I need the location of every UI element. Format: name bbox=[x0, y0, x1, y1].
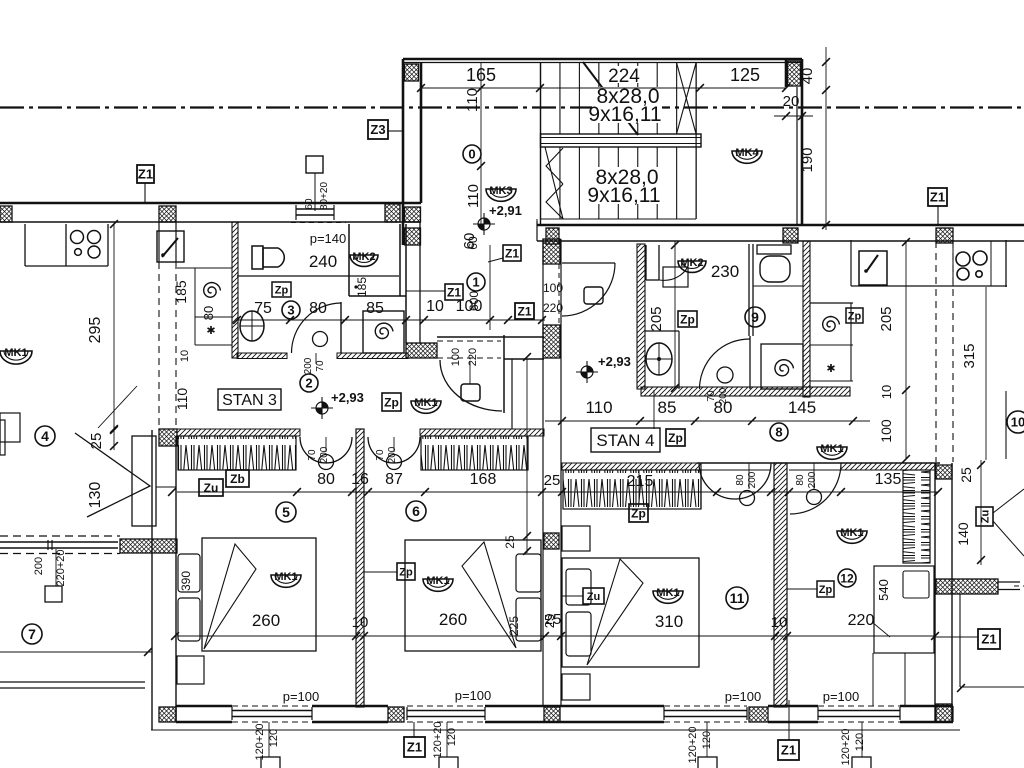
svg-text:Zu: Zu bbox=[587, 591, 600, 603]
svg-text:315: 315 bbox=[961, 343, 978, 368]
svg-text:Zb: Zb bbox=[230, 472, 245, 486]
svg-text:85: 85 bbox=[366, 300, 384, 317]
svg-text:p=100: p=100 bbox=[823, 689, 860, 704]
svg-text:220: 220 bbox=[543, 301, 563, 315]
svg-text:Zp: Zp bbox=[680, 312, 695, 326]
svg-text:Z1: Z1 bbox=[981, 632, 996, 647]
svg-text:Z1: Z1 bbox=[930, 190, 945, 205]
svg-text:MK1: MK1 bbox=[656, 587, 679, 599]
svg-text:0: 0 bbox=[468, 147, 475, 162]
svg-text:Zu: Zu bbox=[204, 481, 219, 495]
svg-text:85: 85 bbox=[658, 398, 677, 417]
svg-text:8: 8 bbox=[775, 425, 782, 440]
svg-text:145: 145 bbox=[788, 398, 816, 417]
svg-text:80: 80 bbox=[795, 474, 806, 486]
svg-text:125: 125 bbox=[730, 65, 760, 85]
svg-text:10: 10 bbox=[879, 385, 894, 399]
svg-text:390: 390 bbox=[179, 571, 193, 591]
svg-text:12: 12 bbox=[840, 571, 854, 585]
svg-text:MK1: MK1 bbox=[820, 443, 843, 455]
svg-text:110: 110 bbox=[464, 88, 481, 112]
svg-text:200: 200 bbox=[33, 557, 45, 575]
svg-text:120: 120 bbox=[854, 733, 866, 751]
svg-text:220: 220 bbox=[467, 348, 479, 366]
svg-text:60: 60 bbox=[304, 198, 315, 210]
svg-text:220: 220 bbox=[848, 612, 875, 629]
svg-text:Z1: Z1 bbox=[781, 743, 796, 758]
svg-text:9: 9 bbox=[751, 309, 759, 325]
svg-text:Z1: Z1 bbox=[447, 285, 461, 299]
svg-text:10: 10 bbox=[1011, 415, 1024, 430]
svg-text:100: 100 bbox=[450, 348, 462, 366]
svg-text:100: 100 bbox=[878, 419, 894, 443]
svg-text:260: 260 bbox=[439, 610, 467, 629]
svg-text:5: 5 bbox=[282, 504, 290, 520]
svg-text:168: 168 bbox=[470, 471, 497, 488]
svg-text:190: 190 bbox=[799, 147, 816, 172]
svg-text:25: 25 bbox=[544, 472, 561, 489]
svg-text:120+20: 120+20 bbox=[687, 726, 699, 763]
svg-text:230: 230 bbox=[711, 262, 739, 281]
svg-text:240: 240 bbox=[309, 252, 337, 271]
svg-text:MK1: MK1 bbox=[426, 575, 449, 587]
svg-text:75: 75 bbox=[254, 300, 272, 317]
svg-text:MK2: MK2 bbox=[680, 257, 703, 269]
svg-text:✱: ✱ bbox=[206, 325, 215, 337]
svg-text:11: 11 bbox=[730, 590, 745, 606]
svg-text:110: 110 bbox=[465, 184, 482, 208]
svg-text:p=140: p=140 bbox=[310, 231, 347, 246]
svg-text:MK4: MK4 bbox=[735, 147, 759, 159]
svg-text:MK1: MK1 bbox=[840, 527, 863, 539]
svg-text:260: 260 bbox=[252, 611, 280, 630]
svg-text:120+20: 120+20 bbox=[840, 728, 852, 765]
svg-text:135: 135 bbox=[875, 471, 902, 488]
svg-text:10: 10 bbox=[352, 614, 369, 631]
svg-text:110: 110 bbox=[174, 388, 190, 411]
svg-text:Z1: Z1 bbox=[505, 246, 519, 260]
svg-text:Zu: Zu bbox=[979, 510, 991, 523]
svg-text:205: 205 bbox=[878, 306, 895, 331]
svg-text:Z1: Z1 bbox=[407, 740, 422, 755]
svg-text:10: 10 bbox=[426, 298, 444, 315]
svg-text:60: 60 bbox=[466, 236, 480, 250]
svg-text:9x16,11: 9x16,11 bbox=[588, 103, 661, 126]
svg-text:200: 200 bbox=[747, 471, 758, 488]
svg-text:10: 10 bbox=[771, 614, 788, 631]
svg-text:+2,93: +2,93 bbox=[598, 354, 631, 369]
svg-text:2: 2 bbox=[305, 376, 312, 391]
svg-text:Zp: Zp bbox=[399, 566, 413, 578]
svg-text:40: 40 bbox=[799, 68, 816, 85]
svg-text:p=100: p=100 bbox=[455, 688, 492, 703]
svg-text:140: 140 bbox=[955, 522, 971, 546]
svg-text:70: 70 bbox=[307, 449, 318, 461]
svg-text:80: 80 bbox=[201, 306, 216, 320]
svg-text:80: 80 bbox=[735, 474, 746, 486]
svg-text:Zp: Zp bbox=[819, 584, 833, 596]
svg-text:100: 100 bbox=[543, 281, 563, 295]
svg-text:+2,93: +2,93 bbox=[331, 390, 364, 405]
svg-text:MK2: MK2 bbox=[352, 251, 375, 263]
svg-text:200: 200 bbox=[303, 357, 314, 374]
svg-text:MK3: MK3 bbox=[489, 185, 512, 197]
svg-text:MK1: MK1 bbox=[274, 571, 297, 583]
svg-text:215: 215 bbox=[627, 473, 654, 490]
svg-text:225: 225 bbox=[507, 616, 521, 636]
svg-text:1: 1 bbox=[472, 275, 479, 290]
svg-text:+2,91: +2,91 bbox=[489, 203, 522, 218]
svg-text:25: 25 bbox=[503, 535, 517, 549]
svg-text:80+20: 80+20 bbox=[319, 182, 330, 211]
svg-text:310: 310 bbox=[655, 612, 683, 631]
svg-text:70: 70 bbox=[375, 449, 386, 461]
svg-text:10: 10 bbox=[179, 350, 191, 362]
svg-text:130: 130 bbox=[87, 482, 104, 509]
svg-text:Z1: Z1 bbox=[517, 304, 531, 318]
svg-text:Z1: Z1 bbox=[138, 167, 153, 182]
svg-text:120+20: 120+20 bbox=[432, 721, 444, 758]
svg-text:25: 25 bbox=[542, 614, 557, 628]
svg-text:3: 3 bbox=[287, 303, 294, 318]
svg-text:Zp: Zp bbox=[848, 310, 862, 322]
svg-text:120+20: 120+20 bbox=[254, 723, 266, 760]
svg-text:MK1: MK1 bbox=[4, 347, 27, 359]
svg-text:200: 200 bbox=[807, 471, 818, 488]
svg-text:Zp: Zp bbox=[275, 284, 289, 296]
svg-text:70: 70 bbox=[315, 360, 326, 372]
svg-text:80: 80 bbox=[714, 398, 733, 417]
svg-text:STAN 3: STAN 3 bbox=[222, 392, 277, 409]
svg-text:200: 200 bbox=[387, 446, 398, 463]
svg-text:295: 295 bbox=[87, 317, 104, 344]
svg-text:7: 7 bbox=[28, 626, 36, 642]
svg-text:Zp: Zp bbox=[631, 506, 646, 520]
svg-text:120: 120 bbox=[268, 729, 280, 747]
svg-text:200: 200 bbox=[319, 446, 330, 463]
svg-text:80: 80 bbox=[309, 300, 327, 317]
svg-text:224: 224 bbox=[608, 66, 640, 87]
svg-text:9x16,11: 9x16,11 bbox=[587, 184, 660, 207]
svg-text:87: 87 bbox=[385, 471, 403, 488]
svg-text:600: 600 bbox=[467, 291, 481, 311]
svg-text:540: 540 bbox=[876, 579, 891, 601]
svg-text:p=100: p=100 bbox=[725, 689, 762, 704]
svg-text:120: 120 bbox=[446, 728, 458, 746]
svg-text:80: 80 bbox=[317, 471, 335, 488]
svg-text:4: 4 bbox=[41, 428, 49, 444]
svg-text:205: 205 bbox=[648, 306, 665, 331]
svg-text:110: 110 bbox=[585, 398, 612, 417]
svg-text:MK1: MK1 bbox=[414, 397, 437, 409]
svg-text:20: 20 bbox=[783, 93, 800, 110]
svg-text:25: 25 bbox=[88, 433, 105, 450]
svg-text:Zp: Zp bbox=[668, 431, 683, 445]
svg-text:p=100: p=100 bbox=[283, 689, 320, 704]
svg-text:✱: ✱ bbox=[826, 363, 835, 375]
svg-text:Zp: Zp bbox=[384, 395, 399, 409]
svg-text:220+20: 220+20 bbox=[55, 549, 67, 586]
svg-text:185: 185 bbox=[173, 280, 189, 304]
svg-text:6: 6 bbox=[412, 503, 420, 519]
svg-text:120: 120 bbox=[701, 731, 713, 749]
svg-text:Z3: Z3 bbox=[370, 122, 385, 137]
svg-text:STAN 4: STAN 4 bbox=[596, 431, 654, 450]
svg-text:25: 25 bbox=[958, 467, 974, 483]
